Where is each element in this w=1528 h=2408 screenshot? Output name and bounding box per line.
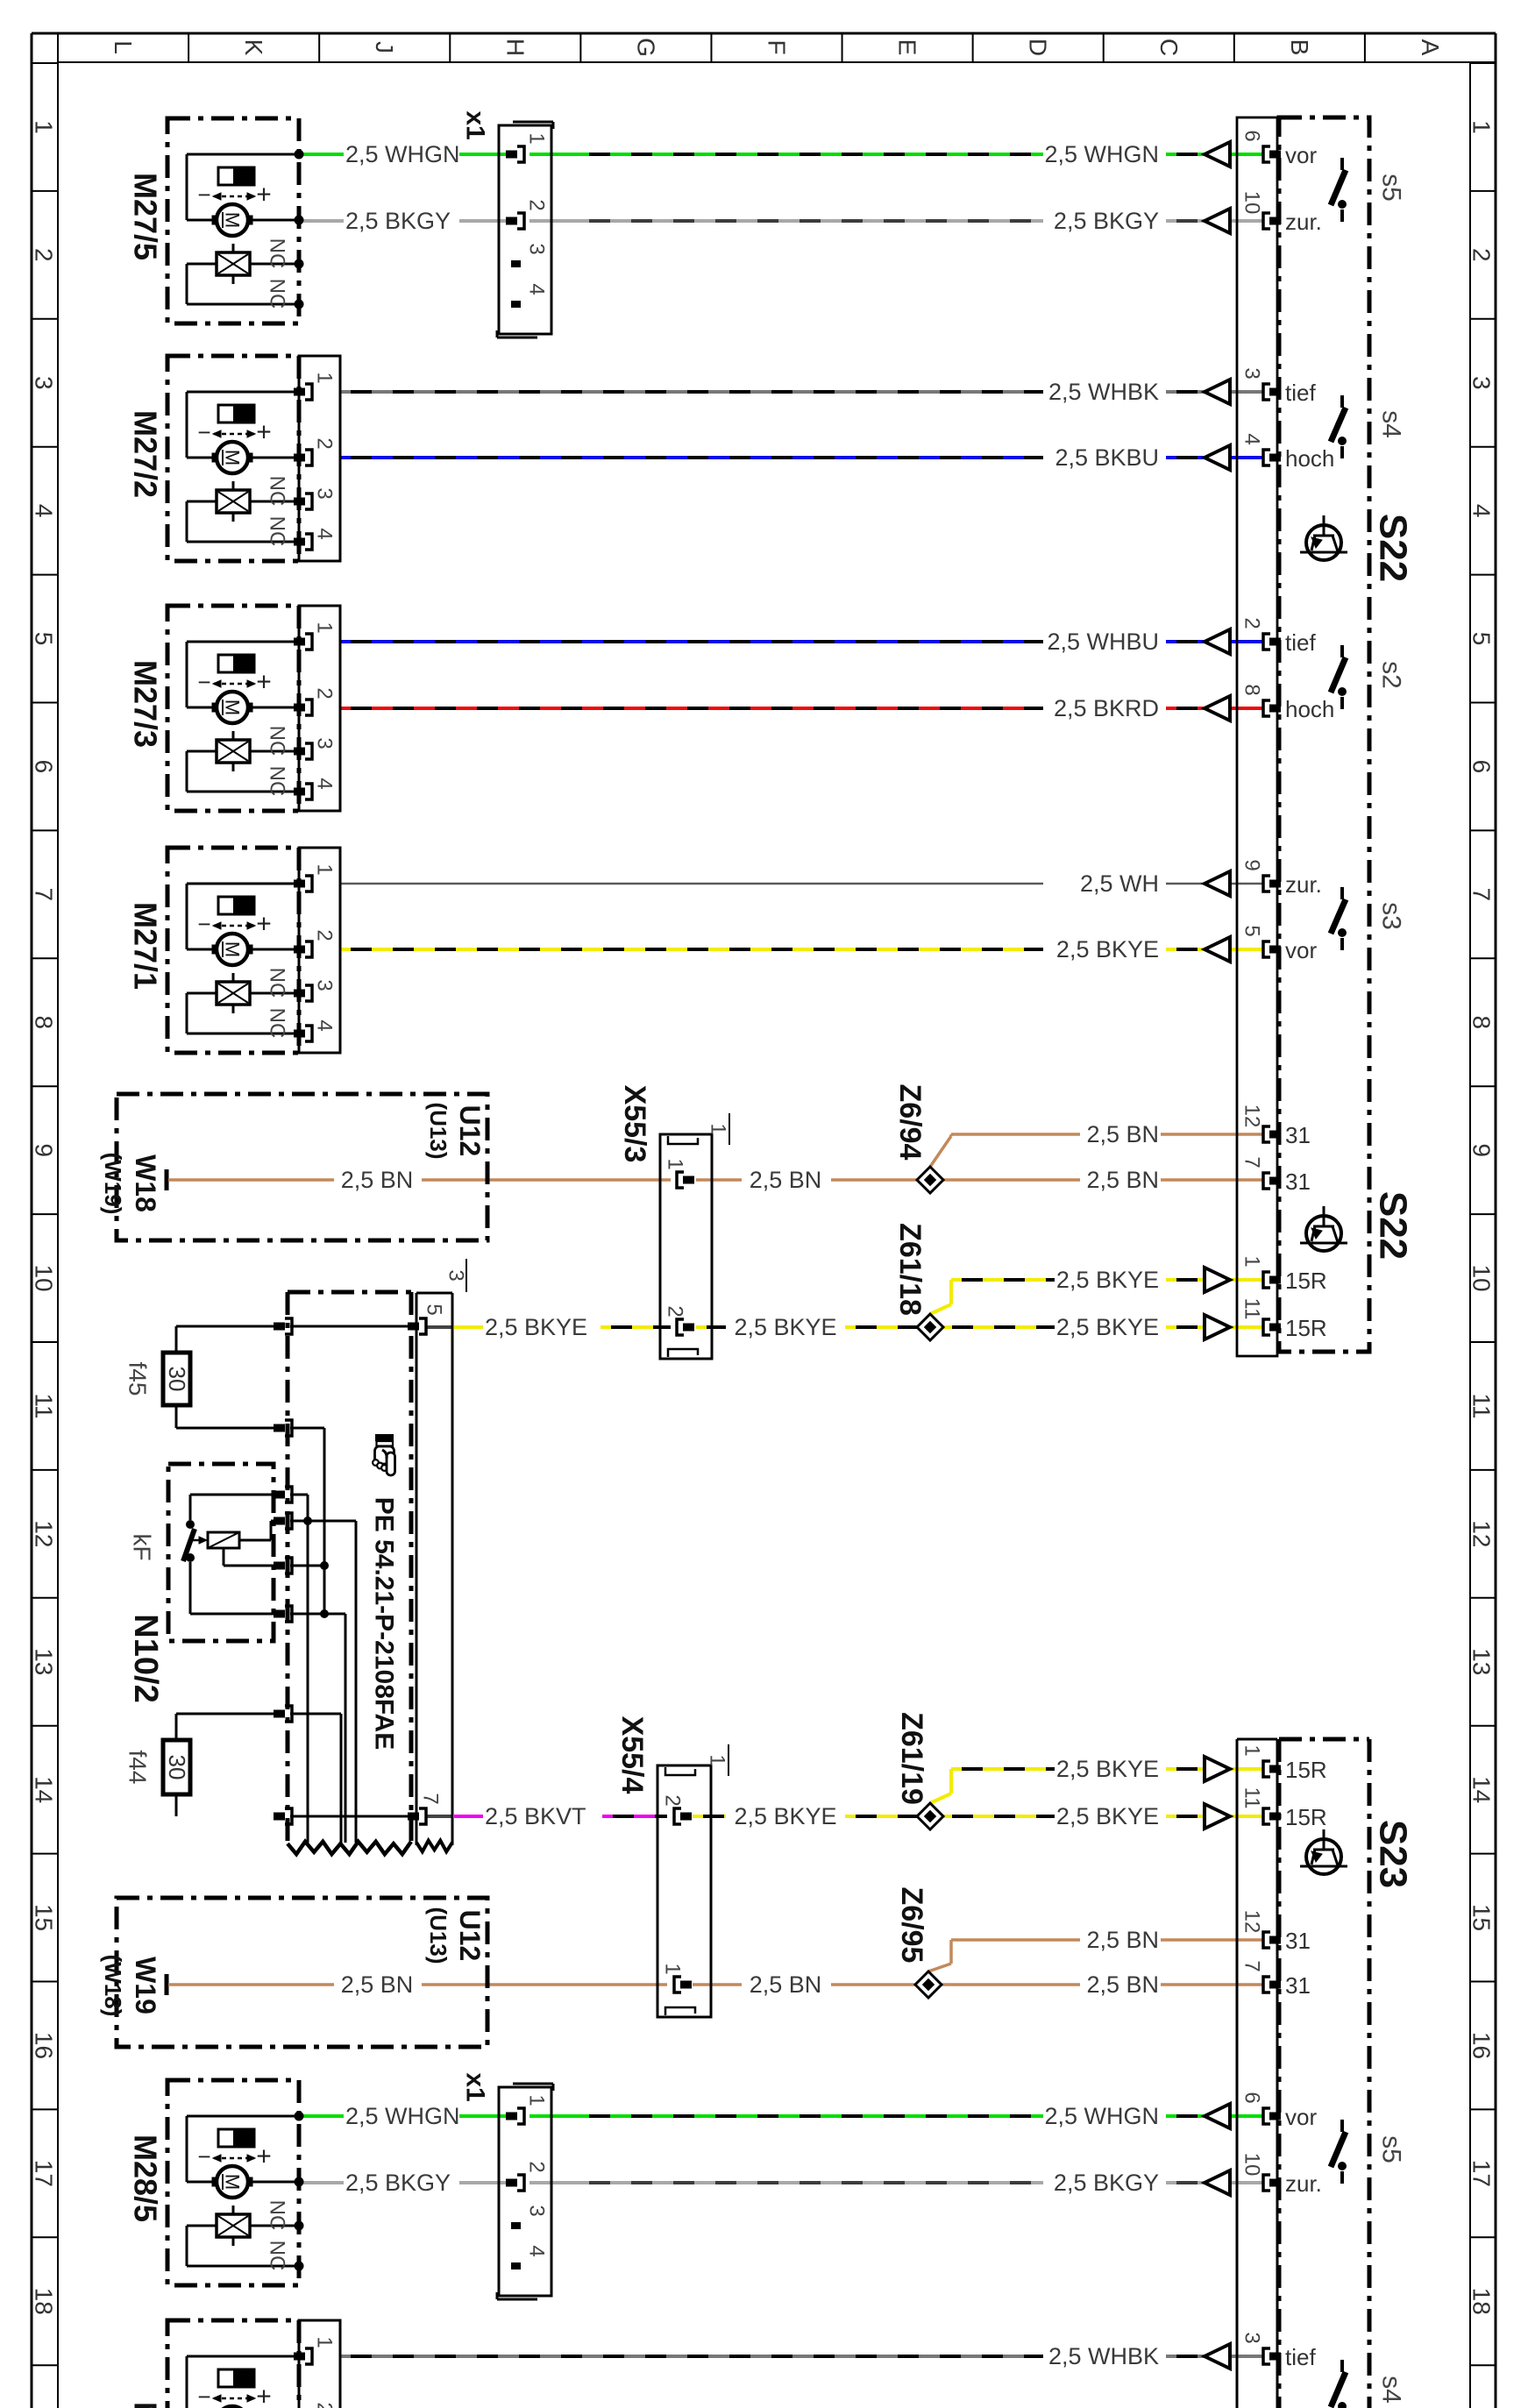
svg-text:9: 9 xyxy=(1468,1143,1496,1157)
svg-text:3: 3 xyxy=(313,487,337,499)
svg-text:2: 2 xyxy=(313,687,337,699)
svg-text:s4: s4 xyxy=(1377,410,1406,438)
svg-text:2: 2 xyxy=(313,2402,337,2408)
svg-text:+: + xyxy=(256,418,272,447)
svg-text:(W18): (W18) xyxy=(100,1955,126,2017)
svg-text:3: 3 xyxy=(31,376,58,390)
svg-text:30: 30 xyxy=(164,1755,190,1780)
svg-text:6: 6 xyxy=(1468,760,1496,774)
svg-text:−: − xyxy=(197,181,210,208)
svg-text:NC: NC xyxy=(266,968,289,998)
svg-text:1: 1 xyxy=(706,1754,729,1765)
svg-text:Z61/19: Z61/19 xyxy=(895,1712,928,1805)
svg-text:2: 2 xyxy=(313,437,337,449)
svg-text:17: 17 xyxy=(1468,2160,1496,2187)
svg-text:18: 18 xyxy=(31,2288,58,2315)
svg-text:F: F xyxy=(764,39,791,54)
svg-text:M: M xyxy=(222,450,244,465)
svg-text:3: 3 xyxy=(313,979,337,991)
svg-text:14: 14 xyxy=(1468,1776,1496,1803)
svg-text:f45: f45 xyxy=(124,1362,152,1396)
svg-text:zur.: zur. xyxy=(1285,209,1322,235)
svg-text:M27/3: M27/3 xyxy=(128,660,164,748)
svg-text:13: 13 xyxy=(31,1648,58,1675)
svg-text:NC: NC xyxy=(266,2200,289,2231)
svg-text:2: 2 xyxy=(313,929,337,941)
svg-text:10: 10 xyxy=(1468,1264,1496,1291)
svg-text:X55/4: X55/4 xyxy=(615,1716,649,1794)
svg-text:2,5 BKYE: 2,5 BKYE xyxy=(734,1803,836,1829)
svg-text:M27/1: M27/1 xyxy=(128,902,164,990)
svg-text:S23: S23 xyxy=(1372,1820,1415,1888)
svg-text:tief: tief xyxy=(1285,380,1316,406)
svg-text:10: 10 xyxy=(1240,191,1264,215)
svg-text:15: 15 xyxy=(1468,1904,1496,1931)
svg-text:3: 3 xyxy=(313,737,337,749)
svg-text:31: 31 xyxy=(1285,1122,1311,1148)
svg-text:10: 10 xyxy=(31,1264,58,1291)
svg-text:2,5 WHGN: 2,5 WHGN xyxy=(345,2103,460,2129)
svg-text:2,5 BKYE: 2,5 BKYE xyxy=(1056,1267,1159,1293)
svg-text:3: 3 xyxy=(1240,367,1264,379)
svg-text:+: + xyxy=(256,181,272,210)
svg-text:C: C xyxy=(1155,39,1183,56)
svg-text:1: 1 xyxy=(313,863,337,875)
svg-text:1: 1 xyxy=(525,132,549,144)
svg-text:15R: 15R xyxy=(1285,1757,1327,1783)
svg-text:2,5 BKYE: 2,5 BKYE xyxy=(1056,1314,1159,1340)
svg-text:G: G xyxy=(632,38,659,57)
svg-text:8: 8 xyxy=(1468,1015,1496,1029)
svg-text:11: 11 xyxy=(1240,1298,1264,1320)
svg-text:M: M xyxy=(222,941,244,957)
svg-text:11: 11 xyxy=(1240,1787,1264,1809)
svg-text:U12: U12 xyxy=(454,1105,486,1157)
svg-text:3: 3 xyxy=(1468,376,1496,390)
svg-text:S22: S22 xyxy=(1372,1191,1415,1260)
svg-text:A: A xyxy=(1417,39,1444,56)
svg-text:15: 15 xyxy=(31,1904,58,1931)
svg-text:vor: vor xyxy=(1285,142,1317,168)
svg-text:J: J xyxy=(371,41,398,53)
svg-text:8: 8 xyxy=(1240,684,1264,695)
svg-text:4: 4 xyxy=(313,1019,337,1031)
svg-text:D: D xyxy=(1025,39,1052,56)
svg-text:B: B xyxy=(1286,39,1313,56)
svg-text:M27/5: M27/5 xyxy=(128,173,164,260)
svg-text:2,5 BKGY: 2,5 BKGY xyxy=(1054,208,1159,234)
svg-text:4: 4 xyxy=(313,528,337,539)
svg-text:+: + xyxy=(256,910,272,939)
svg-text:H: H xyxy=(501,39,529,56)
svg-text:NC: NC xyxy=(266,726,289,756)
svg-text:3: 3 xyxy=(1240,2332,1264,2343)
svg-text:2,5 BN: 2,5 BN xyxy=(1086,1971,1159,1998)
svg-text:2,5 WHGN: 2,5 WHGN xyxy=(1044,141,1159,167)
svg-text:6: 6 xyxy=(31,760,58,774)
svg-text:31: 31 xyxy=(1285,1928,1311,1954)
svg-text:2,5 BKYE: 2,5 BKYE xyxy=(1056,936,1159,962)
svg-text:4: 4 xyxy=(1240,433,1264,444)
svg-text:2,5 BN: 2,5 BN xyxy=(341,1971,414,1998)
svg-text:−: − xyxy=(197,2143,210,2170)
svg-text:tief: tief xyxy=(1285,629,1316,656)
svg-text:X55/3: X55/3 xyxy=(618,1085,651,1163)
svg-text:NC: NC xyxy=(266,2241,289,2271)
svg-text:2,5 WHBU: 2,5 WHBU xyxy=(1047,629,1159,655)
svg-text:2,5 BKGY: 2,5 BKGY xyxy=(345,208,451,234)
svg-text:5: 5 xyxy=(31,632,58,646)
svg-text:M28/2: M28/2 xyxy=(128,2402,164,2408)
svg-text:2,5 BN: 2,5 BN xyxy=(1086,1167,1159,1193)
svg-text:zur.: zur. xyxy=(1285,871,1322,898)
svg-text:2,5 BN: 2,5 BN xyxy=(341,1167,414,1193)
svg-text:4: 4 xyxy=(525,283,549,295)
svg-text:W18: W18 xyxy=(130,1154,161,1212)
svg-text:2,5 BKRD: 2,5 BKRD xyxy=(1054,695,1159,721)
svg-text:4: 4 xyxy=(1468,504,1496,518)
svg-text:17: 17 xyxy=(31,2160,58,2187)
svg-text:f44: f44 xyxy=(124,1751,152,1785)
svg-text:3: 3 xyxy=(525,2205,549,2216)
svg-text:−: − xyxy=(197,2383,210,2408)
svg-text:Z6/94: Z6/94 xyxy=(893,1084,927,1161)
svg-text:31: 31 xyxy=(1285,1168,1311,1195)
svg-text:2,5 WH: 2,5 WH xyxy=(1080,870,1159,897)
svg-text:4: 4 xyxy=(313,778,337,789)
svg-text:2,5 BKGY: 2,5 BKGY xyxy=(1054,2170,1159,2196)
svg-text:L: L xyxy=(110,40,137,54)
svg-text:2,5 WHBK: 2,5 WHBK xyxy=(1048,2343,1159,2369)
svg-text:7: 7 xyxy=(1240,1960,1264,1971)
svg-text:6: 6 xyxy=(1240,2092,1264,2103)
svg-text:7: 7 xyxy=(1240,1156,1264,1168)
svg-text:2,5 BKYE: 2,5 BKYE xyxy=(485,1314,587,1340)
svg-text:N10/2: N10/2 xyxy=(127,1614,164,1702)
svg-text:s5: s5 xyxy=(1377,2135,1406,2163)
svg-text:2,5 BKBU: 2,5 BKBU xyxy=(1055,444,1159,471)
svg-text:30: 30 xyxy=(164,1367,190,1392)
svg-text:1: 1 xyxy=(1240,1255,1264,1267)
svg-text:2,5 WHGN: 2,5 WHGN xyxy=(1044,2103,1159,2129)
svg-text:1: 1 xyxy=(313,2336,337,2348)
svg-text:18: 18 xyxy=(1468,2288,1496,2315)
svg-text:U12: U12 xyxy=(454,1910,486,1962)
svg-text:1: 1 xyxy=(664,1158,687,1169)
svg-text:15R: 15R xyxy=(1285,1315,1327,1341)
svg-text:3: 3 xyxy=(444,1269,468,1281)
svg-text:2,5 BKGY: 2,5 BKGY xyxy=(345,2170,451,2196)
svg-text:M: M xyxy=(222,2174,244,2190)
svg-text:31: 31 xyxy=(1285,1972,1311,1999)
svg-text:s5: s5 xyxy=(1377,174,1406,202)
svg-text:+: + xyxy=(256,2383,272,2408)
svg-text:vor: vor xyxy=(1285,2104,1317,2130)
svg-text:E: E xyxy=(894,39,921,56)
svg-text:NC: NC xyxy=(266,766,289,797)
svg-text:4: 4 xyxy=(31,504,58,518)
svg-text:1: 1 xyxy=(1468,120,1496,134)
svg-text:5: 5 xyxy=(1468,632,1496,646)
svg-text:1: 1 xyxy=(1240,1744,1264,1756)
svg-text:NC: NC xyxy=(266,1008,289,1039)
svg-text:PE 54.21-P-2108FAE: PE 54.21-P-2108FAE xyxy=(370,1497,399,1751)
svg-text:M28/5: M28/5 xyxy=(128,2135,164,2222)
svg-text:15R: 15R xyxy=(1285,1804,1327,1830)
svg-text:2,5 BKYE: 2,5 BKYE xyxy=(734,1314,836,1340)
svg-text:s3: s3 xyxy=(1377,902,1406,930)
svg-text:8: 8 xyxy=(31,1015,58,1029)
svg-text:5: 5 xyxy=(1240,925,1264,936)
svg-text:Z6/95: Z6/95 xyxy=(895,1887,928,1964)
svg-text:2,5 WHBK: 2,5 WHBK xyxy=(1048,379,1159,405)
svg-text:2,5 BKYE: 2,5 BKYE xyxy=(1056,1803,1159,1829)
svg-text:4: 4 xyxy=(525,2245,549,2256)
svg-text:1: 1 xyxy=(313,372,337,383)
svg-text:15R: 15R xyxy=(1285,1268,1327,1294)
svg-text:2: 2 xyxy=(1240,617,1264,629)
svg-text:7: 7 xyxy=(1468,888,1496,902)
svg-text:7: 7 xyxy=(31,888,58,902)
svg-text:−: − xyxy=(197,669,210,695)
svg-text:hoch: hoch xyxy=(1285,445,1334,472)
svg-text:9: 9 xyxy=(1240,859,1264,870)
svg-text:9: 9 xyxy=(31,1143,58,1157)
svg-text:W19: W19 xyxy=(130,1957,161,2014)
svg-text:s4: s4 xyxy=(1377,2376,1406,2404)
svg-text:s2: s2 xyxy=(1377,661,1406,689)
svg-text:−: − xyxy=(197,911,210,937)
svg-text:14: 14 xyxy=(31,1776,58,1803)
svg-text:10: 10 xyxy=(1240,2153,1264,2177)
svg-text:kF: kF xyxy=(129,1533,156,1560)
svg-text:12: 12 xyxy=(1240,1105,1264,1128)
svg-text:12: 12 xyxy=(31,1520,58,1547)
svg-text:5: 5 xyxy=(423,1303,446,1315)
svg-text:(U13): (U13) xyxy=(425,1907,451,1964)
svg-text:(W19): (W19) xyxy=(100,1153,126,1215)
svg-text:1: 1 xyxy=(661,1963,685,1974)
svg-text:+: + xyxy=(256,2142,272,2171)
svg-text:M27/2: M27/2 xyxy=(128,410,164,498)
svg-text:1: 1 xyxy=(31,120,58,134)
svg-text:x1: x1 xyxy=(461,110,490,139)
svg-text:2: 2 xyxy=(661,1794,685,1806)
svg-text:2,5 WHGN: 2,5 WHGN xyxy=(345,141,460,167)
svg-text:2: 2 xyxy=(31,248,58,262)
svg-text:2,5 BN: 2,5 BN xyxy=(1086,1927,1159,1953)
svg-text:6: 6 xyxy=(1240,130,1264,141)
svg-text:Z61/18: Z61/18 xyxy=(893,1223,927,1316)
svg-text:NC: NC xyxy=(266,279,289,309)
svg-text:12: 12 xyxy=(1468,1520,1496,1547)
svg-text:NC: NC xyxy=(266,476,289,507)
svg-text:zur.: zur. xyxy=(1285,2170,1322,2197)
svg-text:2,5 BN: 2,5 BN xyxy=(750,1971,822,1998)
svg-text:3: 3 xyxy=(525,243,549,254)
svg-text:16: 16 xyxy=(31,2032,58,2059)
svg-text:2: 2 xyxy=(525,2161,549,2172)
svg-text:11: 11 xyxy=(31,1393,58,1418)
svg-text:M: M xyxy=(222,212,244,228)
svg-text:16: 16 xyxy=(1468,2032,1496,2059)
svg-text:hoch: hoch xyxy=(1285,696,1334,722)
svg-text:+: + xyxy=(256,668,272,697)
svg-text:−: − xyxy=(197,419,210,445)
svg-text:vor: vor xyxy=(1285,937,1317,963)
svg-text:M: M xyxy=(222,700,244,715)
svg-text:2,5 BN: 2,5 BN xyxy=(750,1167,822,1193)
svg-text:2,5 BKYE: 2,5 BKYE xyxy=(1056,1756,1159,1782)
svg-text:1: 1 xyxy=(707,1123,730,1134)
svg-text:2: 2 xyxy=(525,199,549,210)
svg-text:(U13): (U13) xyxy=(425,1102,451,1159)
svg-text:K: K xyxy=(240,39,267,56)
svg-text:2: 2 xyxy=(1468,248,1496,262)
svg-text:x1: x1 xyxy=(461,2072,490,2101)
svg-text:2,5 BN: 2,5 BN xyxy=(1086,1121,1159,1147)
svg-text:11: 11 xyxy=(1468,1393,1496,1418)
svg-text:2,5 BKVT: 2,5 BKVT xyxy=(485,1803,586,1829)
svg-text:2: 2 xyxy=(664,1305,687,1317)
svg-text:tief: tief xyxy=(1285,2344,1316,2370)
svg-text:1: 1 xyxy=(313,622,337,633)
svg-text:NC: NC xyxy=(266,238,289,269)
svg-text:1: 1 xyxy=(525,2094,549,2106)
svg-text:NC: NC xyxy=(266,516,289,547)
svg-text:7: 7 xyxy=(419,1793,443,1804)
svg-text:13: 13 xyxy=(1468,1648,1496,1675)
svg-text:S22: S22 xyxy=(1372,514,1415,582)
svg-text:12: 12 xyxy=(1240,1910,1264,1934)
